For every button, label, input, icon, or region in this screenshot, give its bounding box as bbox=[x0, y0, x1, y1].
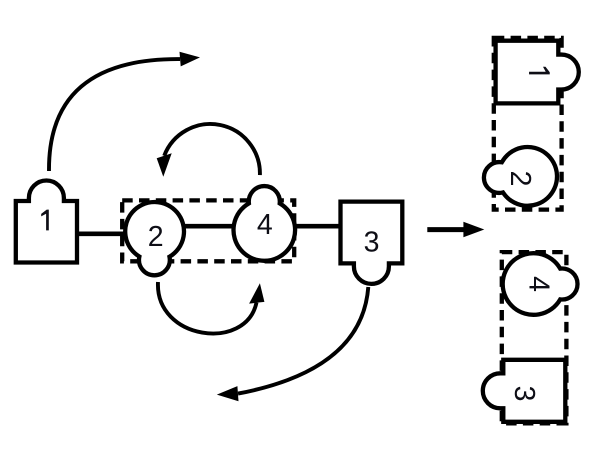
svg-text:4: 4 bbox=[257, 209, 273, 241]
wire piece1-piece2 bbox=[77, 231, 135, 236]
curved arrow from piece 3 down to the left bbox=[238, 287, 368, 394]
piece 4 (circle, tab on top) bbox=[234, 186, 296, 261]
wire piece2-piece4 bbox=[178, 224, 242, 229]
dashed box around result pieces 1 and 2 (top right) bbox=[494, 38, 562, 210]
svg-text:4: 4 bbox=[523, 276, 555, 292]
dashed box around pieces 2 and 4 (left diagram) bbox=[122, 200, 294, 261]
big arrow (transformation) bbox=[427, 227, 465, 232]
piece 1 (square, tab on top) bbox=[16, 181, 77, 263]
curved arrow from piece 1 up to the right bbox=[49, 59, 180, 171]
svg-text:2: 2 bbox=[504, 171, 536, 187]
piece 2 rotated (circle, tab on left) bbox=[484, 147, 557, 206]
piece 3 rotated (square, tab on left) bbox=[483, 360, 566, 422]
piece 2 (circle, tab on bottom) bbox=[125, 202, 184, 275]
curved arrow loop above pieces 2 and 4 (counterclockwise) bbox=[164, 124, 260, 175]
curved arrow loop below pieces 2 and 4 (counterclockwise) bbox=[158, 282, 257, 333]
svg-text:2: 2 bbox=[148, 221, 164, 253]
svg-text:3: 3 bbox=[364, 226, 380, 258]
piece 1 rotated (square, tab on right) bbox=[496, 41, 579, 104]
label 1 bbox=[41, 210, 49, 231]
wire piece4-piece3 bbox=[288, 224, 346, 229]
piece 4 rotated (circle, tab on right) bbox=[503, 253, 578, 315]
piece 3 (square, tab on bottom) bbox=[341, 202, 403, 284]
label 1 rotated bbox=[529, 67, 550, 75]
dashed box around result pieces 4 and 3 (bottom right) bbox=[502, 252, 567, 423]
svg-text:3: 3 bbox=[508, 386, 540, 402]
